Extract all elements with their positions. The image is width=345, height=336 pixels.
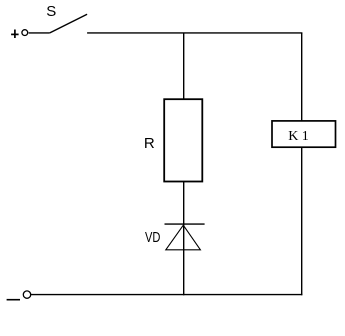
- plus terminal label: [11, 30, 19, 39]
- wire top rail to relay coil: [301, 33, 303, 121]
- wire relay coil to bottom rail: [301, 147, 303, 295]
- wire top rail to resistor: [183, 33, 185, 100]
- svg-text:S: S: [46, 3, 56, 20]
- switch S blade: [50, 14, 87, 33]
- wire resistor to diode to bottom rail: [183, 182, 185, 296]
- relay coil K1: [272, 121, 336, 147]
- wire bottom rail: [31, 294, 302, 296]
- resistor R: [164, 99, 202, 181]
- positive input terminal node: [22, 30, 28, 36]
- wire top rail: [87, 32, 302, 34]
- svg-text:R: R: [144, 135, 155, 152]
- svg-text:VD: VD: [145, 229, 161, 246]
- svg-text:K 1: K 1: [288, 129, 309, 144]
- wire terminal to switch: [29, 32, 50, 34]
- diode VD cathode bar: [165, 223, 205, 225]
- negative input terminal node: [23, 291, 30, 298]
- minus terminal label: [7, 299, 20, 301]
- diode VD triangle: [166, 225, 201, 250]
